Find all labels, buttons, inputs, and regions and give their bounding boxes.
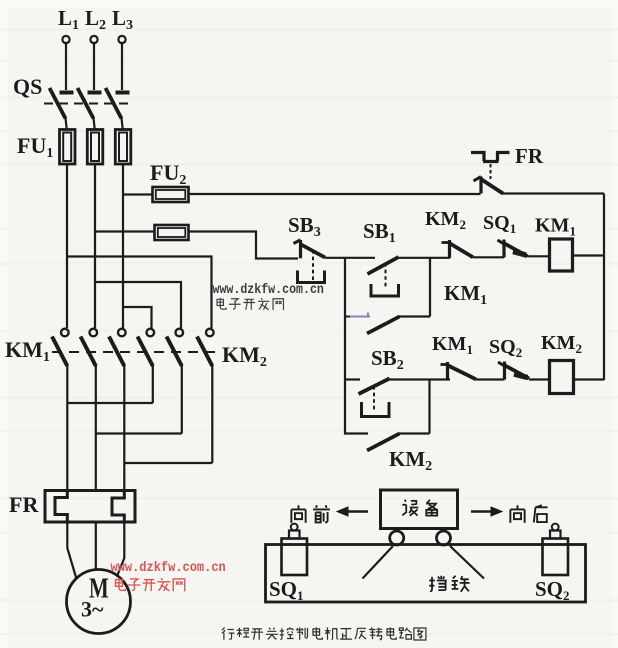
- fuse FU1 c: [115, 130, 131, 165]
- node junction to KM1 aux: [429, 258, 431, 317]
- wire KM2NC to SQ1: [473, 256, 504, 258]
- svg-text:KM2: KM2: [541, 332, 582, 356]
- KM2 main contact 2: [176, 329, 184, 337]
- arrow right (backward): [471, 507, 502, 516]
- watermark red cn: [115, 578, 184, 591]
- wire tap L2 to KM2 mid: [95, 282, 181, 328]
- wire FU2-2 tap from phase B: [95, 230, 155, 232]
- wire below KM2 contact 1: [152, 365, 154, 403]
- rail bed box: [266, 545, 586, 603]
- wire tap L3 to KM2 left: [123, 307, 152, 328]
- wire join KM2-2 to phase B: [96, 432, 182, 434]
- svg-text:KM2: KM2: [222, 342, 267, 370]
- wire below KM2 contact 2: [181, 365, 183, 434]
- wire join KM2-3 to phase C: [124, 462, 212, 464]
- FR heater element 2: [112, 491, 124, 523]
- svg-text:FR: FR: [515, 144, 544, 168]
- svg-text:SQ2: SQ2: [535, 577, 570, 603]
- svg-text:KM1: KM1: [444, 281, 487, 308]
- wire blade1 to FU1: [66, 118, 67, 130]
- watermark center cn: [217, 298, 283, 310]
- contact SQ1 NC travel switch: [498, 240, 528, 258]
- switch QS blade 2: [78, 88, 94, 119]
- svg-text:SB1: SB1: [363, 219, 396, 246]
- wire FR contact to right rail: [502, 192, 605, 194]
- svg-text:L2: L2: [85, 6, 106, 33]
- thermal relay FR box: [45, 491, 135, 523]
- label 向后: [510, 505, 547, 523]
- wire L3 drop: [121, 43, 123, 90]
- wire SB1 to KM2 NC: [397, 257, 451, 259]
- wire below contact B: [95, 365, 97, 490]
- coil KM1: [550, 239, 573, 271]
- cart wheel right: [437, 531, 451, 545]
- leader line right (stop iron): [450, 546, 484, 579]
- svg-text:KM1: KM1: [432, 333, 473, 357]
- wire FU2-1 to FR contact: [189, 193, 481, 195]
- KM2 main contact 3: [206, 329, 214, 337]
- coil KM2: [550, 361, 574, 394]
- wire phase A vertical: [66, 164, 68, 328]
- wire below KM2 contact 3: [211, 365, 213, 463]
- contact KM2 NC interlock: [442, 240, 474, 258]
- wire FU2-2 to SB3: [189, 232, 299, 259]
- wire motor lead C: [118, 522, 125, 575]
- svg-text:SB2: SB2: [371, 346, 404, 373]
- node branch vertical to row2: [344, 258, 346, 380]
- svg-text:KM2: KM2: [425, 208, 466, 232]
- switch QS fixed bars: [60, 91, 130, 95]
- contact KM2 aux (NO, self-hold): [345, 380, 430, 451]
- svg-text:L3: L3: [112, 6, 133, 33]
- wire phase C vertical: [122, 164, 124, 328]
- wire SQ1 to coil KM1: [528, 255, 550, 257]
- svg-text:SB3: SB3: [288, 213, 321, 240]
- svg-text:KM1: KM1: [535, 215, 576, 239]
- svg-text:L1: L1: [58, 6, 79, 33]
- svg-text:QS: QS: [13, 74, 42, 99]
- wire SQ2 to coil KM2: [529, 378, 550, 380]
- KM1 main contact 3: [118, 329, 126, 337]
- pushbutton SB1 (NO): [368, 257, 399, 296]
- leader line left (stop iron): [363, 546, 394, 579]
- limit switch SQ2 body: [543, 524, 569, 575]
- svg-text:www.dzkfw.com.cn: www.dzkfw.com.cn: [111, 559, 226, 575]
- pushbutton SB3 (NC): [294, 240, 326, 283]
- switch QS blade 3: [106, 88, 122, 119]
- wire SB3 to SB1: [325, 257, 375, 259]
- terminal L1: [62, 36, 69, 43]
- wire L2 drop: [93, 43, 95, 90]
- switch QS blade 1: [50, 88, 66, 119]
- QS gang dashed link: [44, 103, 128, 105]
- label 向前: [291, 505, 330, 523]
- wire coil KM2 to rail: [574, 378, 605, 380]
- contact FR NC: [474, 177, 504, 194]
- label 设备: [402, 500, 437, 516]
- terminal L3: [118, 36, 125, 43]
- wire FU2-1 tap from phase C: [123, 193, 153, 195]
- wire L1 drop: [65, 43, 67, 90]
- arrow left (forward): [337, 507, 368, 516]
- label 挡铁: [429, 576, 469, 592]
- scan margin strips: [0, 0, 618, 7]
- svg-text:3~: 3~: [81, 597, 104, 622]
- svg-text:SQ1: SQ1: [269, 577, 304, 603]
- svg-text:SQ1: SQ1: [483, 212, 516, 236]
- right rail: [603, 194, 605, 381]
- contact SQ2 NC travel switch: [498, 362, 529, 380]
- svg-text:FU1: FU1: [17, 133, 53, 161]
- svg-text:KM2: KM2: [389, 447, 432, 474]
- wire below contact C: [123, 365, 125, 490]
- cart wheel left: [390, 531, 404, 545]
- KM gang dashed link: [52, 351, 217, 353]
- fuse FU1 a: [60, 130, 76, 165]
- wire join KM2-1 to phase A: [67, 402, 153, 404]
- fuse FU2-2: [155, 225, 189, 240]
- wire below contact A: [66, 365, 68, 490]
- svg-text:SQ2: SQ2: [489, 336, 522, 360]
- wire KM1NC to SQ2: [476, 378, 505, 380]
- limit switch SQ1 body: [282, 524, 308, 575]
- contact KM1 NC interlock: [441, 362, 477, 380]
- KM1 main contact 1: [61, 329, 69, 337]
- wire phase B vertical: [94, 164, 96, 328]
- wire blade3 to FU1: [122, 118, 123, 130]
- FR heater element 1: [55, 491, 67, 523]
- wire blade2 to FU1: [94, 118, 95, 130]
- fuse FU1 b: [87, 130, 103, 165]
- node junction to KM2 aux: [428, 380, 430, 434]
- fuse FU2-1: [153, 187, 189, 202]
- KM2 main contact 1: [147, 329, 155, 337]
- wire coil KM1 to rail: [573, 254, 605, 256]
- relay FR release element: [471, 153, 510, 180]
- motor M circle: [67, 570, 131, 634]
- wire motor lead B: [95, 522, 97, 570]
- KM1 main contact 2: [90, 329, 98, 337]
- mechanism: equipment cart box: [381, 490, 458, 529]
- pushbutton SB2 (NO): [345, 379, 450, 417]
- svg-text:KM1: KM1: [5, 337, 50, 365]
- wire motor lead A: [67, 522, 76, 579]
- svg-text:www.dzkfw.com.cn: www.dzkfw.com.cn: [213, 282, 324, 297]
- wire tap L1 to KM2 right: [67, 257, 212, 329]
- terminal L2: [90, 36, 97, 43]
- contact KM1 aux (NO, self-hold): [345, 313, 430, 334]
- svg-text:FR: FR: [9, 492, 39, 517]
- caption 行程开关控制电机正反转电路图: [222, 627, 426, 640]
